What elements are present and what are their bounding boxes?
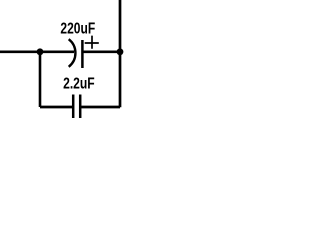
capacitor C2 left plate — [72, 95, 75, 119]
capacitor C1 plus polarity sign — [85, 36, 99, 49]
wire: right vertical from top edge down — [119, 0, 122, 107]
node A: junction dot left — [37, 48, 44, 55]
wire: C1 right plate to right vertical — [82, 50, 119, 53]
capacitor C2 right plate — [79, 95, 82, 119]
capacitor C1 curved negative plate — [69, 39, 76, 67]
wire: left vertical from node A down — [39, 52, 42, 107]
wire: left horizontal into C1 — [0, 50, 74, 53]
wire: bottom left segment — [40, 106, 73, 109]
capacitor C1 straight positive plate — [81, 40, 84, 68]
svg-text:2.2uF: 2.2uF — [63, 76, 95, 93]
svg-text:220uF: 220uF — [60, 20, 95, 37]
node B: junction dot right — [117, 48, 124, 55]
wire: bottom right segment — [80, 106, 120, 109]
